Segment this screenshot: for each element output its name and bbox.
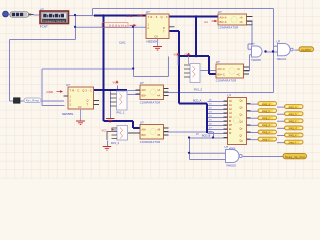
svg-text:Q: Q: [87, 100, 89, 103]
svg-text:U?: U?: [66, 83, 70, 87]
svg-text:BCD_A: BCD_A: [193, 99, 202, 102]
svg-text:NE555N: NE555N: [62, 112, 73, 116]
svg-text:Sseg_b: Sseg_b: [262, 110, 271, 113]
svg-text:74HC00: 74HC00: [226, 164, 236, 168]
svg-text:>C: >C: [237, 67, 241, 71]
svg-text:PH: PH: [229, 125, 233, 127]
svg-text:Sseg_c: Sseg_c: [288, 120, 297, 123]
svg-text:=A: =A: [157, 94, 161, 98]
svg-text:=B: =B: [157, 133, 161, 137]
svg-text:U?: U?: [146, 10, 150, 14]
svg-text:Sseg_d: Sseg_d: [262, 124, 271, 127]
svg-text:1.000kHz: 1.000kHz: [104, 24, 128, 28]
svg-text:A0>: A0>: [142, 128, 147, 132]
svg-text:BI: BI: [229, 121, 232, 123]
svg-text:B0>: B0>: [142, 133, 147, 137]
svg-text:Sseg_a: Sseg_a: [288, 106, 297, 109]
svg-text:VCC: VCC: [102, 128, 108, 132]
svg-text:Sseg_c: Sseg_c: [262, 117, 271, 120]
svg-text:RV1_3: RV1_3: [111, 141, 119, 145]
svg-text:B0>-6: B0>-6: [220, 20, 228, 24]
svg-text:Net_Resp: Net_Resp: [26, 100, 40, 103]
svg-text:CLK1: CLK1: [119, 41, 126, 45]
svg-text:>A: >A: [157, 88, 161, 92]
svg-text:U?: U?: [225, 145, 229, 149]
svg-text:Sseg_d: Sseg_d: [288, 127, 297, 130]
svg-text:U?: U?: [140, 81, 144, 85]
svg-text:LT: LT: [196, 133, 199, 136]
svg-text:Sseg_e: Sseg_e: [288, 134, 297, 137]
svg-text:74HC08: 74HC08: [251, 58, 261, 62]
svg-text:CV: CV: [155, 36, 159, 39]
svg-text:U?: U?: [218, 10, 222, 14]
svg-text:U?: U?: [140, 121, 144, 125]
svg-text:Qf: Qf: [240, 136, 243, 138]
svg-text:A0>-6: A0>-6: [220, 16, 228, 20]
svg-text:ALARM: ALARM: [301, 48, 311, 52]
svg-text:Sseg_a: Sseg_a: [262, 103, 271, 106]
svg-text:TR-C Q3-C: TR-C Q3-C: [70, 88, 93, 92]
svg-text:Frequency Counter: Frequency Counter: [43, 20, 65, 23]
svg-text:COMPARATOR: COMPARATOR: [218, 26, 239, 30]
svg-text:GND: GND: [126, 14, 134, 18]
svg-text:FCNT: FCNT: [40, 25, 48, 29]
svg-text:COMPARATOR: COMPARATOR: [140, 140, 161, 144]
svg-text:A0>: A0>: [142, 88, 147, 92]
svg-text:NE555N: NE555N: [147, 40, 158, 44]
svg-text:>B: >B: [157, 128, 161, 132]
svg-text:B0>: B0>: [142, 94, 147, 98]
svg-text:Sseg_f: Sseg_f: [262, 138, 270, 141]
svg-text:CV: CV: [78, 106, 82, 109]
svg-text:B0>-C: B0>-C: [218, 73, 226, 77]
svg-text:74HC21: 74HC21: [277, 57, 287, 61]
svg-text:vcc: vcc: [204, 20, 209, 24]
svg-text:Sseg_e: Sseg_e: [262, 131, 271, 134]
svg-text:RV1_2: RV1_2: [194, 88, 202, 92]
svg-text:U?: U?: [227, 94, 231, 98]
svg-text:COMPARATOR: COMPARATOR: [140, 100, 161, 104]
svg-text:Sseg_f: Sseg_f: [288, 141, 296, 144]
svg-text:=C: =C: [237, 73, 241, 77]
svg-text:A0>-C: A0>-C: [218, 67, 226, 71]
svg-text:U?: U?: [40, 7, 44, 11]
svg-text:U?: U?: [277, 40, 281, 44]
svg-text:Sseg_b: Sseg_b: [288, 113, 297, 116]
svg-text:DI: DI: [229, 133, 232, 135]
svg-text:LD: LD: [229, 117, 232, 119]
svg-text:GND: GND: [47, 90, 55, 94]
svg-text:U?: U?: [216, 60, 220, 64]
svg-text:COMPARATOR: COMPARATOR: [216, 79, 237, 83]
svg-text:BCD_B: BCD_B: [202, 134, 211, 137]
svg-text:U?: U?: [251, 42, 255, 46]
svg-text:Sseg_dp_Out: Sseg_dp_Out: [285, 155, 305, 159]
svg-text:RV1_1: RV1_1: [117, 110, 125, 114]
